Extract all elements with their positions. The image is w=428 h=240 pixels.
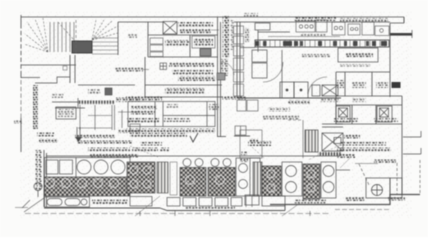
circle symbol left bbox=[34, 183, 42, 198]
kitchen left wall + shelving bbox=[237, 22, 240, 98]
seat circles overlay on checkers bbox=[46, 166, 316, 192]
kitchen mid wall bbox=[281, 50, 283, 98]
smoking room box bbox=[56, 107, 76, 119]
wire kitchen partition L bbox=[258, 30, 290, 52]
left bottom diagonal bbox=[24, 198, 44, 212]
seat unit frame left bbox=[45, 158, 131, 197]
small room text bbox=[337, 80, 344, 88]
node cross mark bbox=[63, 66, 67, 70]
text above range bbox=[294, 17, 336, 22]
checker tall right 1 bbox=[262, 166, 281, 196]
dark equipment box bbox=[200, 49, 211, 57]
stair diagonal dashed bbox=[58, 22, 74, 40]
leader diagonals bottom bbox=[135, 196, 300, 216]
bottom bench ovals bbox=[45, 197, 90, 207]
dark box in room bbox=[105, 88, 112, 95]
text rows mid block bbox=[169, 62, 214, 67]
leader diagonal mid1 bbox=[130, 146, 158, 157]
dashed partition bbox=[288, 120, 303, 158]
wire left border bbox=[20, 15, 22, 24]
wire inner top wall bbox=[234, 21, 390, 23]
bottom wall step bbox=[160, 205, 285, 211]
shelf boxes kitchen left bbox=[252, 50, 267, 78]
gap column box bbox=[170, 162, 177, 195]
left seating wall bbox=[44, 150, 47, 207]
wire left border corner bbox=[21, 78, 85, 109]
dashed vertical mid right bbox=[359, 164, 369, 185]
wire shelf line above counter bbox=[268, 36, 340, 38]
bench boxes bottom mid bbox=[167, 198, 242, 207]
text lower room bbox=[165, 88, 205, 94]
text kitchen center bbox=[302, 54, 330, 58]
label left margin bbox=[14, 120, 22, 124]
text above top border bbox=[244, 13, 258, 17]
checker table band left bbox=[45, 177, 130, 196]
text in room bbox=[346, 53, 373, 58]
text label block top bbox=[178, 22, 213, 27]
counter band bbox=[255, 40, 389, 47]
text left of wall bbox=[222, 96, 246, 100]
boxes below wall bbox=[237, 100, 258, 111]
small box label bbox=[334, 138, 341, 144]
stair landing bbox=[72, 41, 92, 53]
stair fan right bbox=[92, 20, 118, 40]
corridor vertical text column bbox=[223, 16, 230, 58]
booth partition grid left bbox=[78, 105, 140, 131]
dimension line bottom bbox=[15, 200, 390, 216]
kitchen south wall bbox=[237, 97, 341, 99]
hall label text bbox=[115, 68, 143, 73]
label 1F bbox=[52, 94, 64, 99]
range unit with burners bbox=[296, 20, 327, 32]
bracket leaders right bbox=[403, 131, 421, 154]
checker tables mid bbox=[180, 168, 206, 197]
right extension walls bbox=[336, 96, 402, 195]
dark box right wall bbox=[392, 82, 401, 88]
round table unit bbox=[366, 178, 402, 198]
restroom unit 2 bbox=[377, 106, 392, 122]
door swing arc 1 bbox=[263, 62, 283, 82]
corridor wall double bbox=[218, 17, 227, 137]
shelving boxes left column bbox=[150, 36, 215, 57]
door swing arc 2 bbox=[308, 77, 327, 94]
light booth unit bbox=[236, 158, 260, 196]
hatched wall band bbox=[78, 101, 115, 105]
center floor texts bbox=[268, 108, 290, 112]
bottom wall right bbox=[270, 195, 420, 205]
booth block frame mid bbox=[128, 102, 215, 127]
seat circles mid bbox=[183, 159, 231, 167]
leader diagonal mid2 bbox=[252, 147, 264, 158]
right annotation block bbox=[344, 135, 360, 139]
chair column right bbox=[321, 162, 336, 198]
dashed vertical right bbox=[419, 160, 421, 194]
chair column mid bbox=[282, 162, 302, 196]
bench stripes left of checker bbox=[253, 162, 262, 196]
right wall top bbox=[390, 17, 404, 97]
tiny dark labels bbox=[249, 139, 258, 143]
label B1F bbox=[128, 34, 137, 38]
left room block bbox=[78, 84, 135, 86]
box bottom mid right bbox=[245, 195, 259, 205]
checker tall right 2 bbox=[303, 164, 320, 199]
room lower mid walls bbox=[145, 85, 222, 97]
text tiny near wall bbox=[245, 28, 250, 42]
restroom unit 1 bbox=[336, 106, 350, 122]
wall segment dark bbox=[318, 152, 342, 156]
right rooms band bbox=[336, 72, 402, 96]
dark box on wall bbox=[217, 73, 225, 80]
prep tables bbox=[280, 82, 338, 98]
text block left bbox=[37, 133, 54, 137]
scan noise overlay bbox=[20, 12, 412, 218]
left vertical text column 1 bbox=[33, 85, 39, 129]
checker table mid-left tall bbox=[127, 162, 155, 193]
bench stripe column bbox=[157, 162, 168, 193]
dashed leader lines bbox=[308, 145, 350, 168]
stair walls bbox=[21, 22, 118, 83]
light counter box center bbox=[240, 130, 262, 158]
small boxes near corridor end bbox=[234, 126, 250, 136]
stair treads vertical flight bbox=[50, 22, 74, 52]
down arrow symbol bbox=[77, 127, 80, 137]
text above right cluster bbox=[340, 18, 388, 22]
text room label bbox=[88, 89, 100, 94]
dark wall dash top right bbox=[390, 33, 412, 36]
shaft x-box bbox=[163, 22, 177, 35]
text under wall bbox=[288, 100, 310, 104]
stair fan left bbox=[24, 18, 48, 52]
small grid box bbox=[160, 63, 167, 70]
bottom wall left bbox=[44, 207, 160, 209]
text row under room bbox=[126, 96, 162, 101]
wire short wall bbox=[336, 169, 350, 171]
sink box kitchen top bbox=[255, 23, 270, 30]
dark text row bottom bbox=[294, 200, 326, 204]
wire corridor step left bbox=[35, 77, 70, 83]
stair treads right flight bbox=[92, 38, 118, 54]
box under checker bbox=[130, 197, 152, 207]
room right of counter bbox=[338, 48, 378, 62]
wire top border bbox=[21, 17, 404, 23]
wire counter left stub bbox=[240, 47, 255, 49]
x-box right center bbox=[322, 124, 343, 151]
dark text right bottom bbox=[388, 197, 405, 201]
equipment right cluster bbox=[332, 22, 389, 36]
text row bottom of block bbox=[126, 129, 215, 133]
text under units bbox=[334, 118, 358, 122]
stair direction dashed line bbox=[75, 20, 77, 55]
seating zone top line bbox=[46, 155, 340, 157]
text rows in booth block bbox=[131, 105, 157, 109]
check mark bbox=[190, 133, 198, 142]
annotation text rows middle bbox=[90, 154, 138, 158]
hatched pillar box bbox=[305, 130, 318, 152]
text row bottom left bbox=[92, 200, 128, 205]
text small bbox=[352, 98, 366, 102]
text kitchen room bbox=[165, 40, 189, 46]
text booth right bbox=[118, 129, 140, 133]
left vertical text column 2 bbox=[36, 150, 42, 190]
wire tick right bbox=[411, 30, 413, 38]
room upper mid left wall bbox=[118, 22, 218, 97]
text right of hatch bbox=[116, 98, 140, 103]
wire leader bbox=[211, 29, 219, 31]
faint text under room bbox=[340, 64, 370, 67]
